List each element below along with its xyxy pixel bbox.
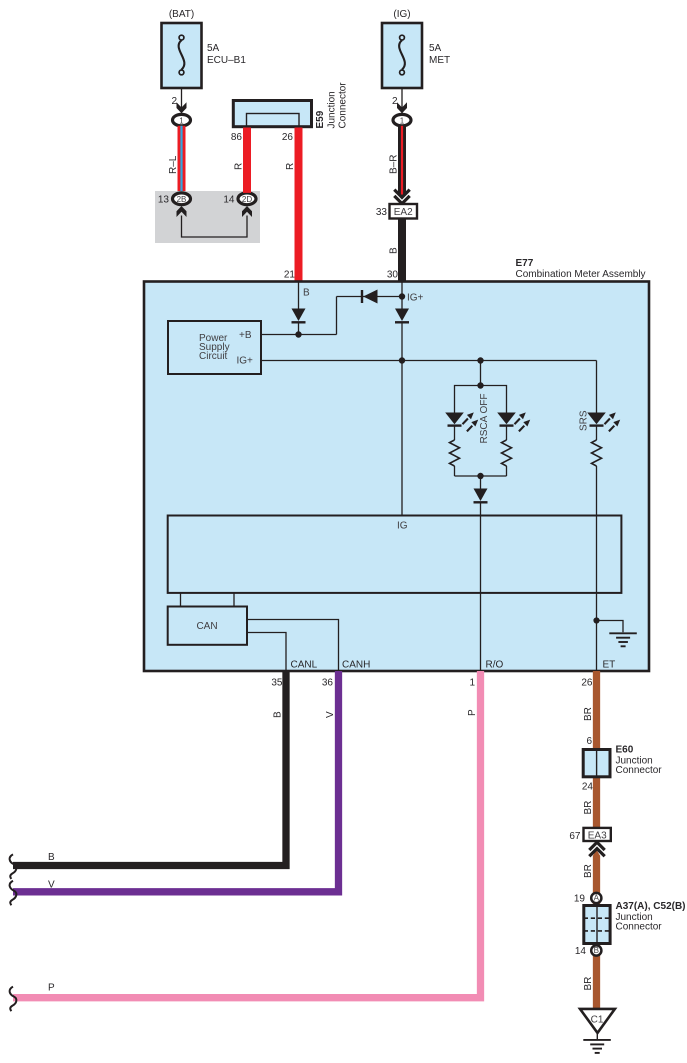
- svg-text:1: 1: [400, 116, 405, 125]
- svg-text:IG+: IG+: [237, 356, 254, 367]
- svg-text:BR: BR: [583, 864, 594, 878]
- diode D2 (to IG+) pointing left: [362, 290, 378, 304]
- wire CANH internal: [247, 620, 339, 672]
- svg-text:R: R: [285, 163, 296, 170]
- shield chevrons down: [394, 190, 409, 204]
- node IG+ junction dot: [399, 293, 405, 299]
- svg-text:B: B: [389, 247, 400, 254]
- wire R-L (red/blue): [178, 126, 186, 193]
- svg-text:Connector: Connector: [616, 765, 663, 776]
- diode D1 (pin 21): [292, 309, 306, 335]
- wire pin30 internal: [401, 282, 403, 309]
- svg-text:13: 13: [158, 195, 170, 206]
- wire BR (chevron tip to ground C1): [593, 850, 600, 1009]
- svg-text:(BAT): (BAT): [169, 9, 194, 20]
- node B (pin 21 internal): [298, 282, 300, 309]
- wire B from EA2 to E77 pin 30: [398, 219, 406, 282]
- svg-text:36: 36: [322, 678, 334, 689]
- svg-text:P: P: [48, 983, 55, 994]
- svg-text:6: 6: [586, 736, 592, 747]
- svg-text:CAN: CAN: [196, 621, 217, 632]
- svg-text:BR: BR: [583, 707, 594, 721]
- resistor R3 (SRS): [592, 426, 602, 466]
- svg-text:IG+: IG+: [407, 293, 424, 304]
- svg-text:21: 21: [284, 270, 296, 281]
- connector EA3: [584, 828, 611, 841]
- svg-text:14: 14: [223, 195, 235, 206]
- svg-text:E60: E60: [616, 745, 634, 756]
- svg-text:EA2: EA2: [394, 207, 413, 218]
- power supply circuit U1: [168, 321, 261, 374]
- svg-text:BR: BR: [583, 977, 594, 991]
- LED RSCA OFF right: [497, 412, 530, 431]
- ground (internal): [597, 621, 637, 647]
- wire B (CANL): [13, 671, 286, 866]
- wire R from E59 pin 26 to E77 pin 21: [295, 128, 303, 282]
- wire RSCA join bar: [455, 475, 507, 477]
- connector circle B: [591, 945, 601, 955]
- svg-text:5A: 5A: [207, 43, 220, 54]
- wire RSCA split bar: [455, 386, 507, 413]
- svg-text:24: 24: [582, 782, 594, 793]
- svg-text:V: V: [48, 879, 55, 890]
- junction connector A37(A), C52(B): [584, 901, 686, 944]
- LED SRS: [587, 412, 620, 431]
- svg-text:E59: E59: [315, 110, 326, 128]
- arrow up to 2B: [177, 206, 187, 217]
- wire +B net: [261, 297, 402, 335]
- wire CAN links: [181, 593, 235, 607]
- junction connector E60: [583, 745, 662, 777]
- svg-text:26: 26: [581, 678, 593, 689]
- break squiggle B: [10, 854, 17, 879]
- diode D4 (below RSCA): [474, 476, 488, 502]
- arrow into connector (IG): [397, 102, 407, 113]
- connector circle A: [591, 893, 601, 903]
- resistor R1 (left): [450, 426, 460, 476]
- connector oval 2D: [238, 193, 256, 205]
- svg-text:A37(A), C52(B): A37(A), C52(B): [616, 901, 686, 912]
- svg-text:33: 33: [376, 207, 388, 218]
- svg-text:2D: 2D: [242, 195, 252, 204]
- shield block (gray): [155, 191, 260, 243]
- svg-text:67: 67: [569, 831, 581, 842]
- svg-text:R: R: [234, 163, 245, 170]
- svg-text:Connector: Connector: [338, 82, 349, 129]
- svg-text:Junction: Junction: [327, 91, 338, 128]
- svg-text:1: 1: [179, 116, 184, 125]
- svg-text:ET: ET: [603, 660, 616, 671]
- node dot ET ground tap: [593, 617, 599, 623]
- svg-text:(IG): (IG): [393, 9, 410, 20]
- svg-text:EA3: EA3: [588, 830, 607, 841]
- wire R/O vertical through IG block: [480, 502, 482, 671]
- arrow up to 2D: [242, 206, 252, 217]
- svg-text:P: P: [467, 709, 478, 716]
- svg-text:26: 26: [282, 132, 294, 143]
- svg-text:35: 35: [271, 678, 283, 689]
- wire B-R (black/red): [398, 126, 406, 199]
- svg-text:Connector: Connector: [616, 922, 663, 933]
- LED RSCA OFF left: [445, 412, 478, 431]
- link wire between arrows: [182, 216, 248, 238]
- svg-text:14: 14: [575, 946, 587, 957]
- svg-text:B: B: [594, 946, 599, 955]
- fuse 5A MET (IG): [382, 9, 450, 88]
- svg-text:SRS: SRS: [579, 410, 590, 431]
- node dot IG+ at RSCA branch: [477, 357, 483, 363]
- connector EA2: [390, 204, 418, 219]
- connector oval 2B: [173, 193, 191, 205]
- arrow into connector (BAT): [177, 102, 187, 113]
- node dot RSCA split: [477, 382, 483, 388]
- wire P (R/O): [13, 671, 481, 998]
- ground C1: [580, 1009, 615, 1053]
- svg-text:A: A: [594, 894, 600, 903]
- svg-text:19: 19: [574, 894, 586, 905]
- node dot IG+ at pin30 branch: [399, 357, 405, 363]
- svg-text:CANL: CANL: [291, 660, 318, 671]
- svg-text:B–R: B–R: [389, 155, 400, 174]
- connector oval 1 (BAT): [173, 114, 191, 125]
- svg-text:86: 86: [231, 132, 243, 143]
- wire BR (ET to EA3): [593, 671, 600, 828]
- wire fuse IG to connector 1: [401, 88, 403, 114]
- node dot RSCA join: [477, 473, 483, 479]
- svg-text:R/O: R/O: [486, 660, 504, 671]
- svg-text:1: 1: [469, 678, 475, 689]
- junction connector E59: [233, 82, 348, 129]
- resistor R2 (right): [502, 426, 512, 476]
- wire R from E59 pin 86 to 2D: [243, 128, 251, 193]
- svg-text:5A: 5A: [429, 43, 442, 54]
- diode D3 (pin 30): [395, 309, 409, 361]
- svg-text:C1: C1: [591, 1015, 604, 1026]
- IG block: [168, 516, 622, 593]
- connector oval 1 (IG): [393, 114, 411, 125]
- svg-text:R–L: R–L: [168, 155, 179, 174]
- break squiggle P: [10, 987, 17, 1012]
- svg-text:2B: 2B: [177, 195, 187, 204]
- svg-text:MET: MET: [429, 55, 450, 66]
- svg-text:Combination Meter Assembly: Combination Meter Assembly: [516, 269, 646, 280]
- svg-text:IG: IG: [397, 521, 408, 532]
- CAN block: [168, 607, 247, 645]
- node +B junction dot: [295, 331, 301, 337]
- svg-text:B: B: [48, 852, 55, 863]
- shield chevrons up: [589, 842, 604, 856]
- wire IG+ net: [261, 360, 597, 362]
- svg-text:V: V: [325, 711, 336, 718]
- svg-text:+B: +B: [239, 330, 252, 341]
- wire IG signal down to IG block: [401, 361, 403, 516]
- fuse 5A ECU-B1 (BAT): [162, 9, 247, 88]
- svg-text:30: 30: [387, 270, 399, 281]
- wire V (CANH): [13, 671, 339, 892]
- svg-text:RSCA OFF: RSCA OFF: [479, 393, 490, 443]
- svg-text:CANH: CANH: [342, 660, 370, 671]
- break squiggle V: [10, 881, 17, 906]
- svg-text:ECU–B1: ECU–B1: [207, 55, 246, 66]
- wire ET vertical through IG block: [596, 466, 598, 671]
- wire SRS branch: [596, 361, 598, 413]
- wire fuse BAT to connector 1: [181, 88, 183, 114]
- svg-text:BR: BR: [583, 801, 594, 815]
- wire CANL internal: [247, 633, 286, 672]
- wire RSCA branch top: [480, 361, 482, 386]
- svg-text:B: B: [273, 711, 284, 718]
- svg-text:B: B: [303, 288, 310, 299]
- E77 Combination Meter Assembly box: [144, 282, 649, 672]
- svg-text:E77: E77: [516, 258, 534, 269]
- svg-text:Circuit: Circuit: [199, 351, 228, 362]
